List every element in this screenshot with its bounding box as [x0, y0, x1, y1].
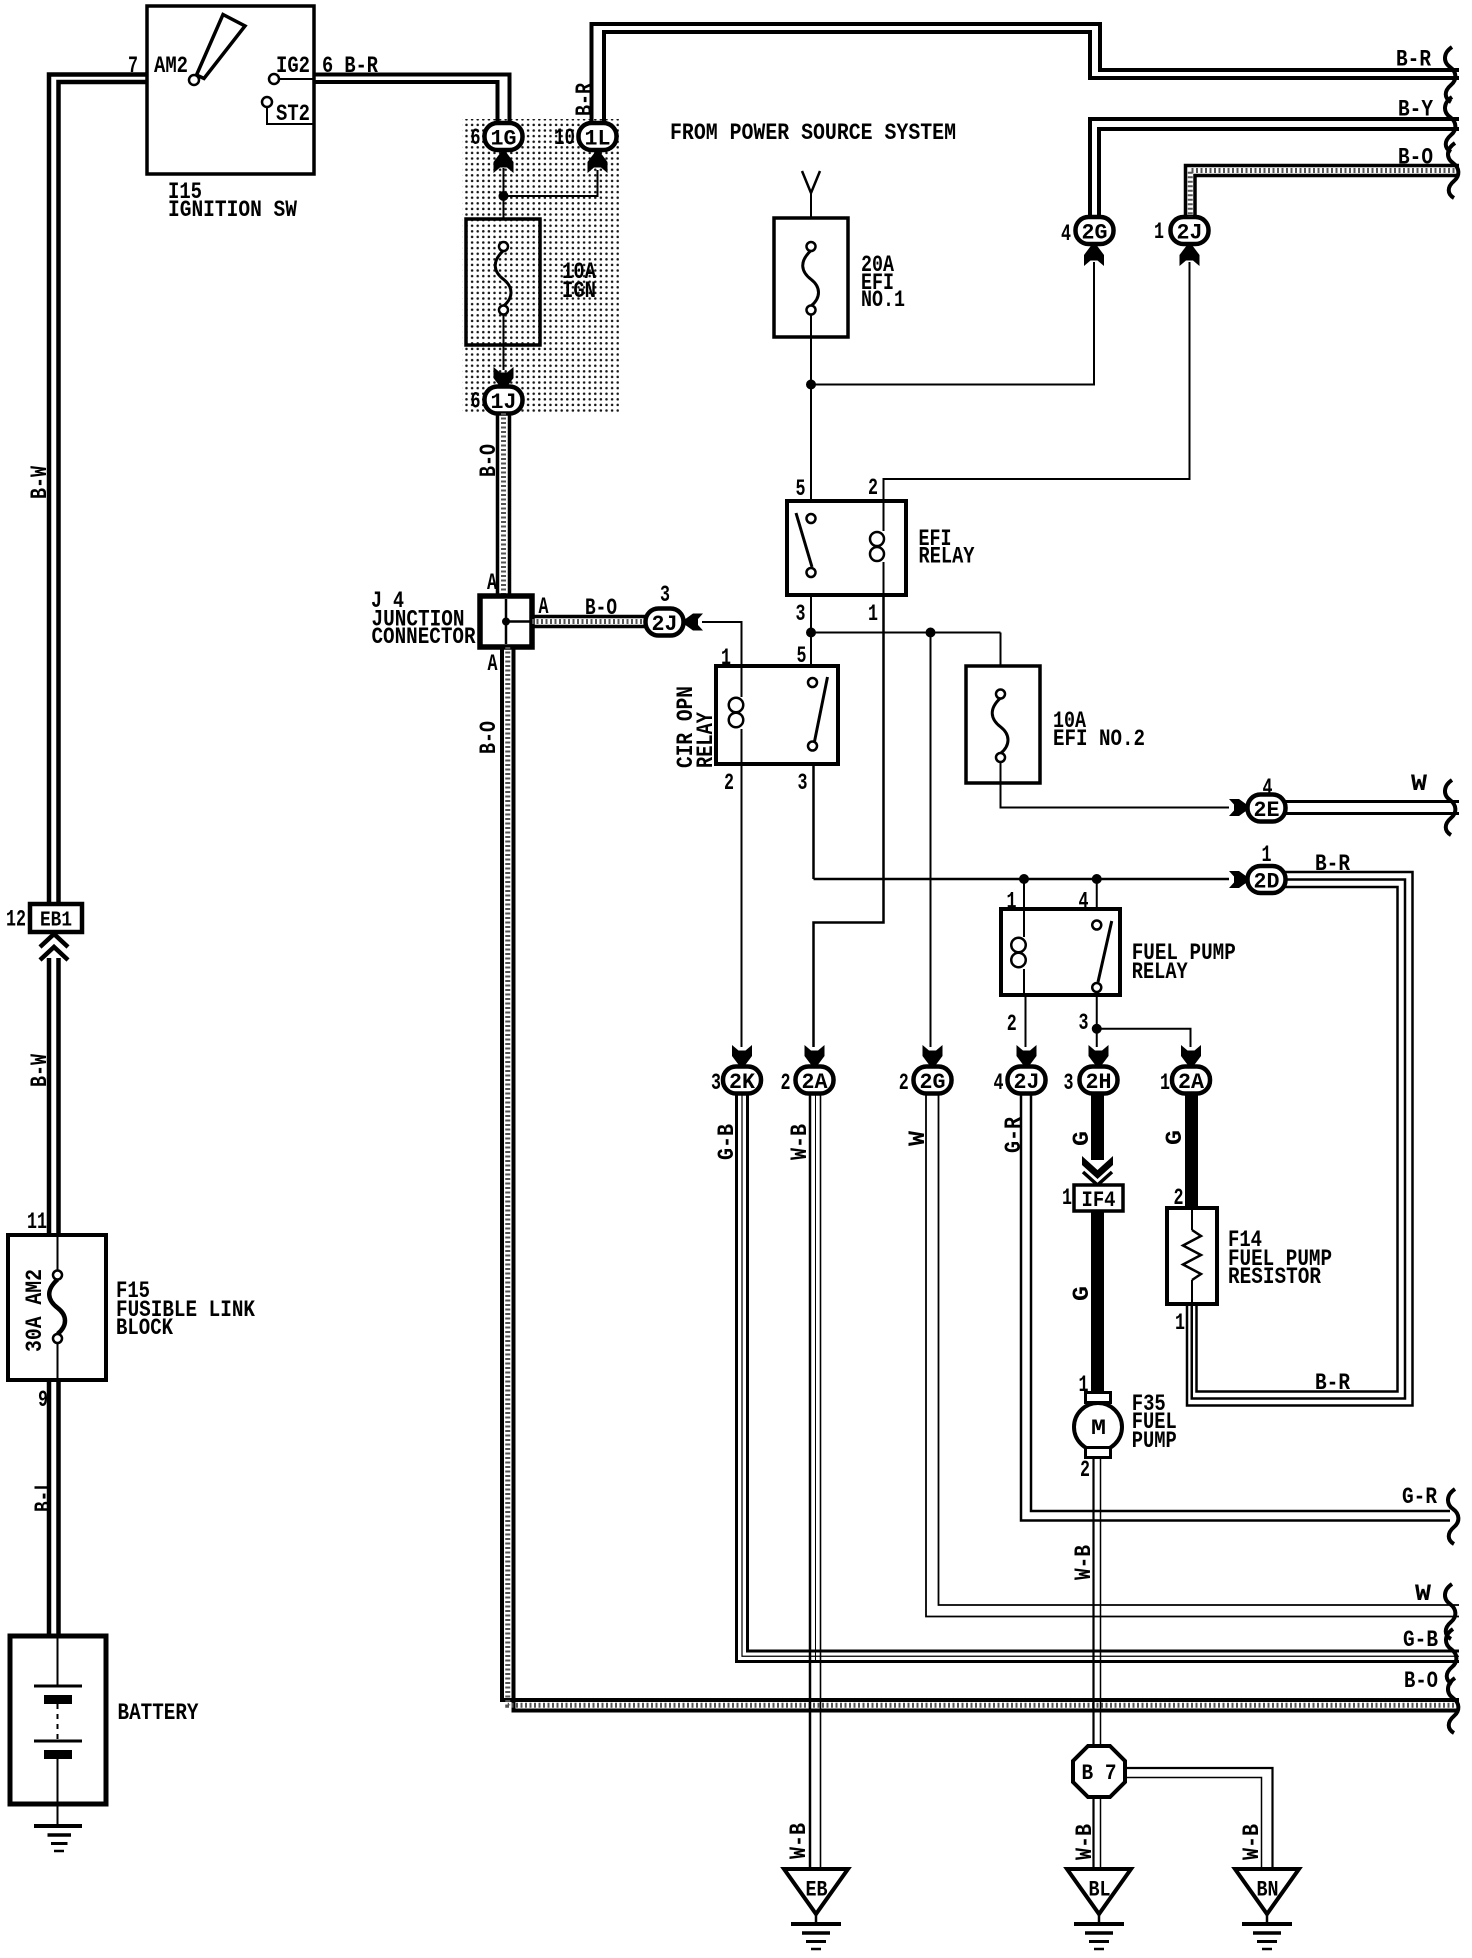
- svg-text:G-B: G-B: [714, 1124, 741, 1160]
- off-page hook G-R: [1448, 1489, 1458, 1544]
- wire fuel pump relay pin 2 to 2J: [1025, 995, 1027, 1047]
- wire to fuel pump relay pin 1: [1023, 879, 1025, 909]
- EFI relay coil: [883, 501, 885, 531]
- svg-text:11: 11: [27, 1209, 47, 1236]
- wire B-O from J4 to connector 2J: [532, 615, 646, 619]
- terminal ST2: [262, 97, 272, 107]
- svg-text:IGN: IGN: [562, 278, 596, 305]
- svg-text:IF4: IF4: [1082, 1187, 1116, 1213]
- wire CIR OPN pin 3 to 2D row: [812, 764, 815, 879]
- arrow into 2G: [923, 1045, 943, 1066]
- svg-text:B-O: B-O: [1404, 1668, 1438, 1695]
- EFI relay box: [787, 501, 906, 595]
- svg-text:G-R: G-R: [1001, 1116, 1028, 1153]
- svg-text:4: 4: [994, 1070, 1004, 1097]
- svg-text:2A: 2A: [802, 1069, 828, 1095]
- wire from 20A fuse to EFI relay pin 5: [810, 314, 812, 501]
- wire from 2J arrow to CIR OPN relay pin 1: [702, 622, 742, 666]
- svg-text:EFI NO.2: EFI NO.2: [1053, 726, 1145, 753]
- connector IF4: [1074, 1185, 1123, 1211]
- wire EFI relay pin 1 down with jog to 2A column: [814, 595, 884, 1047]
- svg-text:5: 5: [796, 476, 806, 503]
- wire B-O from 1J down to J4: [496, 413, 500, 596]
- wire B-W from ignition switch AM2 pin 7 down left side to EB1: [49, 75, 147, 905]
- svg-text:CONNECTOR: CONNECTOR: [372, 624, 477, 651]
- junction connector J4: [480, 596, 532, 647]
- arrow into 2J: [1017, 1045, 1037, 1066]
- wire B-W from EB1 to fusible link block: [47, 958, 52, 1235]
- arrow into 1L: [588, 152, 608, 173]
- wire B-O from 2J up to right edge: [1186, 166, 1460, 218]
- svg-text:IG2: IG2: [276, 53, 310, 80]
- svg-text:2H: 2H: [1086, 1069, 1112, 1095]
- svg-text:3: 3: [711, 1070, 721, 1097]
- off-page hook W lower: [1445, 1584, 1455, 1639]
- svg-text:W-B: W-B: [1071, 1545, 1098, 1580]
- svg-text:G-B: G-B: [1403, 1627, 1438, 1654]
- wire B-O long run from J4 down and across bottom to right edge: [502, 647, 1459, 1700]
- wire W-B from 2A down to EB ground: [809, 1094, 812, 1869]
- wire branch to 2G: [811, 262, 1094, 385]
- ignition switch I15 box: [147, 6, 314, 174]
- wire from node down to 2G (W column top): [930, 633, 932, 1048]
- svg-text:2G: 2G: [920, 1069, 946, 1095]
- dot-shading background around IGN fuse: [462, 119, 619, 414]
- svg-text:A: A: [487, 570, 498, 597]
- svg-text:G-R: G-R: [1402, 1484, 1438, 1511]
- svg-text:2J: 2J: [652, 611, 678, 637]
- svg-text:1: 1: [1062, 1185, 1072, 1212]
- svg-text:3: 3: [660, 582, 670, 609]
- wire to fuel pump relay pin 4: [1096, 879, 1098, 909]
- svg-text:2: 2: [868, 475, 878, 502]
- svg-text:B-L: B-L: [31, 1480, 58, 1512]
- connector B7 octagon: [1073, 1746, 1125, 1797]
- CIR OPN relay coil: [741, 666, 743, 697]
- svg-text:B-R: B-R: [1315, 1370, 1351, 1397]
- svg-text:2D: 2D: [1254, 868, 1280, 894]
- svg-text:B-Y: B-Y: [1398, 97, 1434, 124]
- wire from fuse to 2E: [1001, 762, 1230, 808]
- svg-text:B-O: B-O: [585, 595, 617, 622]
- svg-text:B-O: B-O: [476, 444, 503, 477]
- wire EFI relay pin 3 node: [810, 595, 812, 666]
- ground BL: [1067, 1869, 1131, 1914]
- CIR OPN relay switch: [808, 678, 817, 687]
- connector 1L pin 10: [579, 123, 617, 150]
- svg-text:2E: 2E: [1254, 797, 1280, 823]
- connector 2K pin 3: [723, 1067, 761, 1094]
- svg-text:W-B: W-B: [786, 1823, 813, 1859]
- svg-text:EB: EB: [806, 1878, 828, 1903]
- svg-text:FROM POWER SOURCE SYSTEM: FROM POWER SOURCE SYSTEM: [670, 120, 956, 147]
- arrow into 2G: [1084, 245, 1104, 266]
- big arrow into IF4: [1082, 1156, 1113, 1179]
- svg-text:EB1: EB1: [40, 910, 72, 933]
- arrow into 2K: [732, 1045, 752, 1066]
- svg-text:B 7: B 7: [1082, 1760, 1117, 1786]
- svg-text:ST2: ST2: [276, 101, 310, 128]
- arrow into 1J: [494, 367, 514, 388]
- arrow into 2J top: [1180, 245, 1200, 266]
- wire node row to 2D: [814, 878, 1230, 881]
- connector 2G pin 4: [1076, 217, 1114, 244]
- arrow into 1G: [494, 152, 514, 173]
- wire W-B from pump down to B7: [1092, 1457, 1094, 1746]
- svg-text:10: 10: [554, 125, 575, 152]
- fuse 10A EFI NO.2: [966, 666, 1040, 783]
- svg-text:6: 6: [471, 125, 481, 152]
- wire W from 2G down and across to right edge: [926, 1094, 1459, 1617]
- CIR OPN relay box: [716, 666, 838, 764]
- svg-text:3: 3: [1064, 1070, 1074, 1097]
- fuel pump relay switch: [1092, 921, 1101, 930]
- connector EB1 pin 12: [30, 904, 82, 932]
- fusible link block F15 30A AM2: [8, 1235, 106, 1380]
- wire junction below 1G: [503, 168, 505, 219]
- svg-text:RELAY: RELAY: [919, 544, 976, 571]
- wire W-B from B7 to BL ground: [1092, 1797, 1094, 1869]
- terminal AM2: [189, 75, 199, 85]
- svg-text:IGNITION SW: IGNITION SW: [168, 197, 298, 224]
- battery: [10, 1636, 106, 1804]
- connector 2A pin 2: [796, 1067, 834, 1094]
- svg-text:3: 3: [1079, 1010, 1089, 1037]
- EFI relay switch: [807, 514, 816, 523]
- off-page hook G-B: [1446, 1629, 1456, 1684]
- arrow into 2D: [1229, 871, 1248, 888]
- wire B-R from 1L up and across top to right edge: [592, 24, 1460, 123]
- arrow out of 2J: [684, 614, 703, 631]
- svg-text:W-B: W-B: [1239, 1824, 1266, 1860]
- wire G thick from IF4 to fuel pump: [1091, 1211, 1104, 1392]
- svg-text:3: 3: [796, 601, 806, 628]
- wire W-B from B7 right to BN ground: [1125, 1768, 1273, 1869]
- ignition key lever: [197, 15, 246, 79]
- ground BN: [1235, 1869, 1299, 1914]
- svg-text:2J: 2J: [1014, 1069, 1040, 1095]
- svg-text:B-R: B-R: [572, 82, 599, 116]
- fuel pump relay box: [1001, 909, 1120, 995]
- arrow into 2A: [805, 1045, 825, 1066]
- svg-text:2: 2: [1007, 1011, 1017, 1038]
- wire G-R from 2J down and across to right edge: [1021, 1094, 1450, 1521]
- wire W from 2E to right edge: [1285, 800, 1459, 803]
- arrow into 2H: [1089, 1045, 1109, 1066]
- svg-text:1: 1: [1175, 1310, 1185, 1337]
- svg-text:B-R: B-R: [1396, 47, 1432, 74]
- svg-text:3: 3: [798, 770, 808, 797]
- svg-text:M: M: [1091, 1416, 1106, 1441]
- svg-text:1: 1: [1154, 219, 1164, 246]
- fuse 20A EFI NO.1: [774, 218, 848, 337]
- svg-text:G: G: [1162, 1130, 1189, 1145]
- connector 2G pin 2: [914, 1067, 952, 1094]
- connector 2H pin 3: [1080, 1067, 1118, 1094]
- connector 2D pin 1: [1248, 866, 1286, 893]
- svg-text:B-W: B-W: [27, 465, 54, 499]
- svg-text:2K: 2K: [729, 1069, 755, 1095]
- svg-text:BN: BN: [1257, 1878, 1279, 1903]
- svg-text:G: G: [1069, 1131, 1096, 1146]
- svg-text:2J: 2J: [1177, 219, 1203, 245]
- fuel pump relay coil: [1023, 909, 1025, 937]
- svg-text:B-O: B-O: [476, 721, 503, 754]
- svg-text:B-O: B-O: [1398, 145, 1433, 172]
- svg-text:A: A: [488, 651, 499, 678]
- wire B-L from F15 to battery: [47, 1380, 52, 1636]
- svg-text:1G: 1G: [491, 125, 517, 151]
- connector 1J pin 6: [485, 387, 523, 414]
- battery ground: [57, 1804, 59, 1825]
- terminal IG2: [269, 74, 279, 84]
- svg-text:W: W: [905, 1130, 932, 1146]
- connector 2J pin 4: [1008, 1067, 1046, 1094]
- arrow chevrons into EB1: [40, 934, 68, 947]
- svg-text:4: 4: [1061, 221, 1071, 248]
- off-page hook B-O top: [1448, 143, 1458, 198]
- svg-text:W: W: [1415, 1581, 1432, 1608]
- svg-text:30A AM2: 30A AM2: [22, 1269, 49, 1352]
- svg-text:B-W: B-W: [27, 1053, 54, 1087]
- arrow into 2A: [1181, 1045, 1201, 1066]
- off-page hook B-O bottom: [1448, 1678, 1458, 1733]
- svg-text:1: 1: [868, 601, 878, 628]
- svg-text:BLOCK: BLOCK: [116, 1315, 174, 1342]
- off-page hook W: [1445, 780, 1455, 835]
- svg-text:RELAY: RELAY: [1132, 959, 1189, 986]
- off-page hook B-R: [1445, 47, 1455, 102]
- svg-text:BATTERY: BATTERY: [118, 1700, 200, 1727]
- svg-text:PUMP: PUMP: [1132, 1428, 1177, 1455]
- wire B-R loop from 2D right, down and back to F14 pin 1: [1187, 872, 1413, 1406]
- svg-text:W: W: [1411, 771, 1428, 798]
- svg-text:B-R: B-R: [1315, 851, 1351, 878]
- svg-text:1L: 1L: [585, 125, 611, 151]
- connector 1G pin 6: [485, 123, 523, 150]
- svg-text:6: 6: [471, 389, 481, 416]
- wire B-Y from 2G up to right edge: [1090, 119, 1459, 217]
- svg-text:2G: 2G: [1082, 219, 1108, 245]
- svg-text:AM2: AM2: [154, 53, 188, 80]
- wire G thick from 2H to IF4: [1091, 1092, 1104, 1160]
- svg-text:W-B: W-B: [787, 1124, 814, 1160]
- wire CIR OPN pin 2 down to 2K: [741, 764, 743, 1047]
- wire into 20A fuse: [810, 193, 812, 242]
- wire fuel pump relay pin 3 node: [1096, 995, 1098, 1029]
- svg-text:RELAY: RELAY: [693, 711, 720, 768]
- wire G thick from 2A to F14: [1185, 1092, 1198, 1208]
- svg-text:W-B: W-B: [1072, 1824, 1099, 1860]
- fuel pump F35 motor: [1086, 1393, 1111, 1403]
- svg-text:G: G: [1069, 1286, 1096, 1301]
- svg-text:BL: BL: [1089, 1878, 1111, 1903]
- wire from 2J down to EFI relay pin 2: [884, 262, 1190, 501]
- svg-text:7: 7: [128, 53, 138, 80]
- wire branch to 1L: [504, 170, 598, 196]
- svg-text:12: 12: [6, 907, 26, 934]
- connector 2A pin 1: [1172, 1067, 1210, 1094]
- arrow into 2E: [1229, 799, 1248, 816]
- svg-text:2: 2: [1080, 1457, 1090, 1484]
- off-page hook B-Y: [1445, 97, 1455, 152]
- svg-text:NO.1: NO.1: [861, 287, 905, 314]
- svg-text:2: 2: [781, 1070, 791, 1097]
- svg-text:RESISTOR: RESISTOR: [1228, 1264, 1322, 1291]
- svg-text:9: 9: [38, 1387, 48, 1414]
- wire from node to 10A EFI NO.2 fuse: [1000, 633, 1002, 695]
- svg-text:2: 2: [724, 770, 734, 797]
- fuel pump resistor F14: [1167, 1208, 1217, 1304]
- svg-text:2: 2: [899, 1070, 909, 1097]
- wire B-R from IG2 to connector 1G: [314, 75, 510, 124]
- connector 2J pin 1 (top): [1171, 217, 1209, 244]
- ground EB: [784, 1869, 848, 1914]
- connector 2J (junction to CIR OPN relay): [646, 609, 684, 636]
- svg-text:2A: 2A: [1178, 1069, 1204, 1095]
- fuse 10A IGN: [466, 219, 540, 345]
- connector 2E pin 4: [1248, 795, 1286, 822]
- wire G-B from 2K down and across to right edge: [737, 1094, 1460, 1662]
- svg-text:1J: 1J: [491, 389, 517, 415]
- svg-text:1: 1: [1160, 1070, 1170, 1097]
- arrow from power source: [802, 171, 820, 193]
